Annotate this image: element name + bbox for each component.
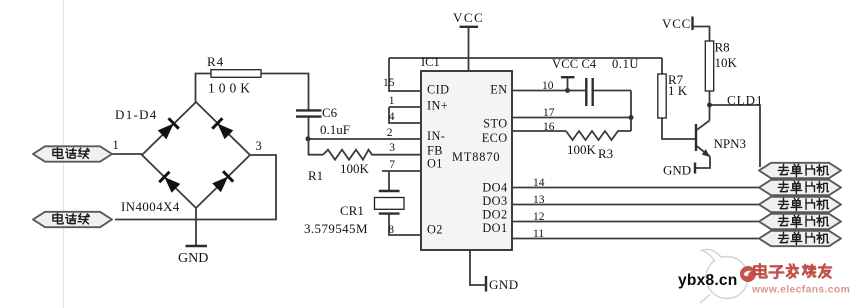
svg-text:O2: O2 [427, 223, 443, 237]
svg-text:MT8870: MT8870 [452, 150, 500, 164]
svg-text:1: 1 [113, 138, 119, 152]
svg-text:R4: R4 [207, 54, 224, 69]
svg-text:DO2: DO2 [482, 208, 507, 222]
svg-text:IN+: IN+ [427, 99, 448, 113]
svg-text:NPN3: NPN3 [714, 136, 747, 151]
svg-text:STO: STO [483, 116, 507, 130]
svg-text:VCC: VCC [552, 57, 578, 71]
svg-text:1: 1 [389, 95, 395, 107]
svg-text:DO1: DO1 [482, 221, 507, 235]
svg-text:1 K: 1 K [668, 83, 688, 98]
svg-text:DO4: DO4 [482, 181, 507, 195]
svg-text:R8: R8 [715, 40, 730, 55]
svg-text:10K: 10K [715, 55, 738, 70]
svg-text:R3: R3 [598, 146, 613, 161]
svg-text:ECO: ECO [482, 131, 508, 145]
svg-text:100K: 100K [340, 161, 370, 176]
svg-text:ybx8.cn: ybx8.cn [678, 272, 737, 289]
svg-text:R1: R1 [308, 168, 323, 183]
svg-text:GND: GND [663, 163, 691, 178]
svg-text:16: 16 [543, 121, 555, 133]
svg-text:7: 7 [389, 159, 395, 171]
svg-text:2: 2 [387, 127, 393, 139]
svg-text:3: 3 [389, 142, 395, 154]
svg-text:17: 17 [543, 107, 555, 119]
svg-text:EN: EN [490, 83, 507, 97]
svg-text:CR1: CR1 [340, 203, 364, 218]
svg-text:IN4004X4: IN4004X4 [121, 200, 180, 214]
svg-text:VCC: VCC [453, 10, 484, 25]
svg-text:C6: C6 [322, 105, 338, 120]
svg-text:10: 10 [542, 80, 554, 92]
svg-text:8: 8 [388, 224, 394, 236]
svg-text:CID: CID [427, 82, 449, 96]
svg-text:D1-D4: D1-D4 [115, 107, 158, 122]
svg-text:4: 4 [389, 111, 395, 123]
svg-text:12: 12 [533, 211, 545, 223]
svg-text:DO3: DO3 [482, 194, 507, 208]
svg-text:GND: GND [178, 251, 208, 266]
svg-text:3: 3 [256, 139, 262, 153]
svg-text:IN-: IN- [427, 129, 445, 143]
svg-text:3.579545M: 3.579545M [304, 221, 368, 236]
svg-text:GND: GND [489, 277, 519, 292]
svg-text:C4: C4 [582, 57, 597, 71]
svg-text:CLD1: CLD1 [727, 93, 764, 108]
svg-text:14: 14 [533, 177, 545, 189]
svg-text:13: 13 [533, 194, 545, 206]
svg-text:0.1U: 0.1U [612, 57, 639, 71]
svg-text:100K: 100K [208, 81, 254, 96]
svg-text:15: 15 [383, 77, 395, 89]
svg-text:100K: 100K [567, 142, 597, 157]
svg-text:VCC: VCC [662, 16, 691, 31]
svg-text:FB: FB [427, 144, 443, 158]
svg-text:0.1uF: 0.1uF [320, 122, 350, 137]
svg-text:IC1: IC1 [421, 55, 440, 69]
svg-text:www.elecfans.com: www.elecfans.com [751, 285, 850, 296]
svg-text:O1: O1 [427, 157, 443, 171]
svg-text:11: 11 [533, 228, 544, 240]
